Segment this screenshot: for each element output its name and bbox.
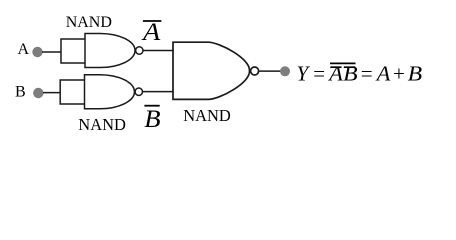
svg-text:A: A	[375, 61, 391, 85]
input terminal dot B	[33, 88, 43, 98]
wire U2 output to U3 input	[143, 91, 174, 93]
svg-text:NAND: NAND	[78, 115, 126, 134]
svg-text:A: A	[18, 41, 30, 58]
node label B-bar	[144, 105, 159, 107]
bubble U1 output	[136, 47, 143, 54]
svg-text:+: +	[393, 61, 405, 85]
svg-text:A: A	[141, 19, 161, 46]
svg-text:NAND: NAND	[66, 14, 112, 31]
svg-text:B: B	[144, 106, 160, 133]
NAND gate U1	[85, 34, 135, 68]
node label A-bar	[143, 20, 162, 22]
svg-text:NAND: NAND	[183, 106, 231, 125]
svg-text:A: A	[327, 61, 343, 85]
input tie rectangle U1	[61, 39, 85, 63]
output terminal dot Y	[280, 66, 290, 76]
NAND gate U3	[173, 42, 250, 99]
wire U1 output to U3 input	[143, 50, 174, 52]
wire A to input tie	[42, 51, 61, 53]
wire U3 output to terminal	[259, 70, 281, 72]
bubble U2 output	[135, 88, 142, 95]
svg-text:=: =	[313, 61, 325, 85]
svg-text:=: =	[361, 61, 373, 85]
bubble U3 output	[251, 67, 259, 75]
overline long (A-bar B-bar)	[330, 62, 356, 64]
svg-text:B: B	[408, 61, 423, 85]
input terminal dot A	[32, 47, 42, 57]
svg-text:B: B	[15, 84, 26, 101]
NAND gate U2	[85, 75, 135, 109]
input tie rectangle U2	[60, 80, 84, 104]
overline short over B	[344, 66, 356, 68]
wire B to input tie	[43, 92, 61, 94]
svg-text:B: B	[343, 61, 358, 85]
overline short over A	[330, 66, 341, 68]
